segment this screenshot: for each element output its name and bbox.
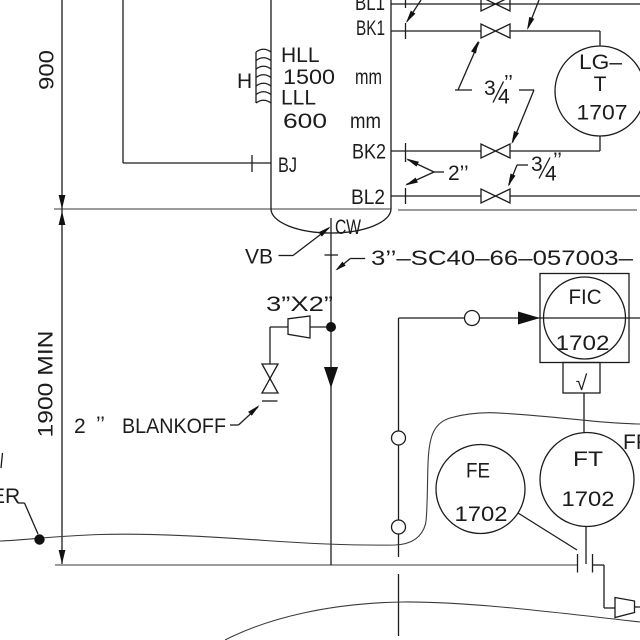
- svg-text:’’: ’’: [553, 149, 562, 172]
- svg-text:BK2: BK2: [352, 141, 386, 164]
- svg-text:2’’: 2’’: [448, 162, 469, 185]
- svg-text:mm: mm: [355, 66, 382, 89]
- svg-text:3: 3: [484, 77, 496, 100]
- svg-text:BL1: BL1: [355, 0, 385, 15]
- svg-text:’’: ’’: [96, 413, 105, 436]
- svg-text:CW: CW: [335, 216, 361, 239]
- svg-text:HLL: HLL: [281, 44, 320, 67]
- svg-text:3: 3: [531, 153, 543, 176]
- svg-text:FIC: FIC: [569, 286, 602, 309]
- svg-text:FR: FR: [623, 431, 640, 454]
- svg-text:1702: 1702: [556, 332, 610, 355]
- svg-text:600: 600: [283, 110, 327, 133]
- svg-text:LLL: LLL: [281, 87, 316, 110]
- svg-text:BLANKOFF: BLANKOFF: [122, 415, 226, 438]
- svg-text:1702: 1702: [562, 488, 615, 511]
- svg-text:1900 MIN: 1900 MIN: [35, 331, 58, 438]
- svg-text:BL2: BL2: [351, 186, 385, 209]
- svg-text:2: 2: [74, 415, 86, 438]
- svg-text:mm: mm: [350, 110, 381, 133]
- svg-text:ER: ER: [0, 485, 20, 508]
- svg-text:BJ: BJ: [278, 154, 297, 177]
- svg-text:T: T: [594, 73, 607, 96]
- svg-text:1702: 1702: [455, 503, 508, 526]
- svg-text:BK1: BK1: [356, 17, 385, 40]
- svg-text:900: 900: [36, 50, 59, 90]
- svg-text:3’’–SC40–66–057003–: 3’’–SC40–66–057003–: [371, 247, 633, 270]
- svg-text:LG–: LG–: [579, 51, 622, 74]
- svg-text:3”X2”: 3”X2”: [266, 293, 333, 316]
- svg-text:√: √: [576, 372, 588, 395]
- svg-text:FE: FE: [466, 460, 490, 483]
- svg-text:H: H: [237, 70, 252, 93]
- svg-text:1707: 1707: [577, 102, 628, 125]
- svg-text:’’: ’’: [504, 72, 513, 95]
- svg-text:FT: FT: [573, 448, 603, 471]
- svg-text:VB: VB: [245, 246, 273, 269]
